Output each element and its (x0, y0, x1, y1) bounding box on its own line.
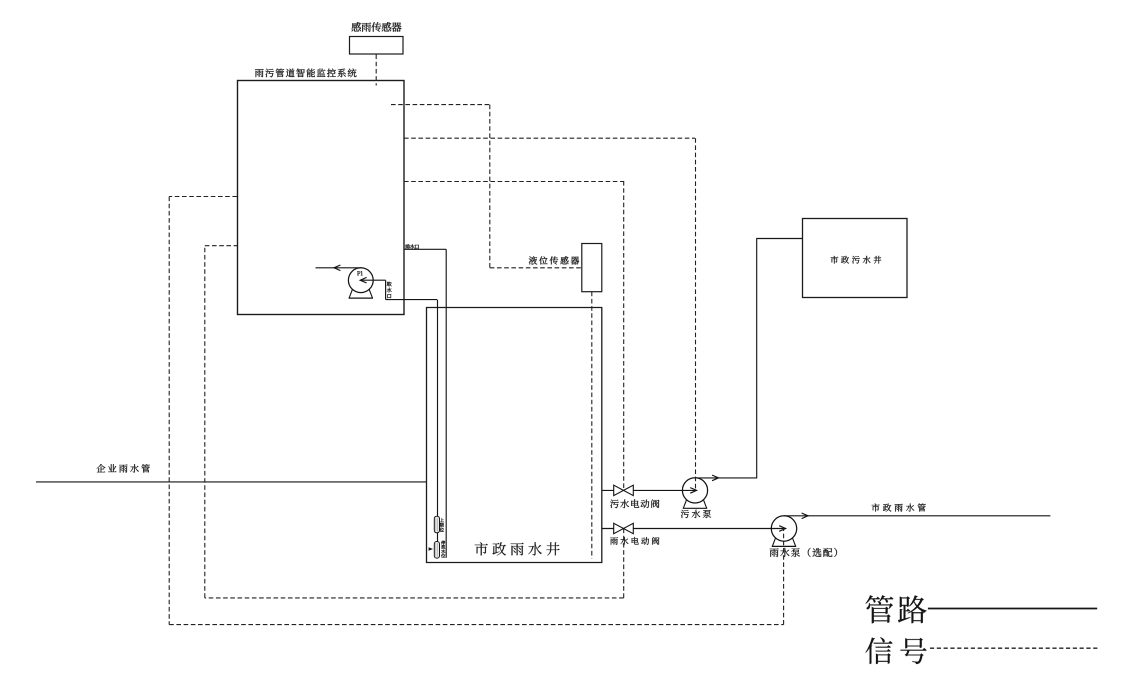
label 市政雨水井 (475, 542, 560, 555)
label P1 (357, 271, 363, 275)
label 排水口 (drain port) (405, 244, 419, 249)
pipe: intake riser inside well (437, 300, 439, 558)
label 市政污水井 (831, 256, 882, 264)
arrow: sewage discharge flow (712, 475, 718, 481)
level switch capsule upper (434, 516, 439, 533)
pipe: well to rain pump suction (602, 528, 786, 530)
label 液位传感器 (529, 256, 579, 264)
box: monitoring system cabinet (238, 81, 405, 315)
label 雨污管道智能监控系统 (255, 69, 357, 78)
signal wire: cabinet to sewage pump (dashed) (404, 137, 695, 139)
label 企业雨水管 (97, 464, 150, 473)
label 市政雨水管 (872, 504, 926, 512)
label 污水泵 (681, 510, 711, 518)
label lower level switch (441, 541, 445, 558)
level switch capsule lower (434, 542, 439, 559)
arrow: suction flow into P1 (360, 277, 366, 283)
pipe: P1 discharge to cabinet interior (316, 267, 362, 269)
signal wire: rain sensor to cabinet (dashed) (375, 55, 377, 86)
arrow: discharge flow left (334, 265, 340, 271)
signal wire: cabinet to level sensor (dashed) (391, 104, 490, 106)
legend label 管路 (866, 595, 927, 623)
label 感雨传感器 (352, 22, 402, 32)
arrow marker at lower switch (429, 547, 433, 551)
box: level sensor 液位传感器 (582, 244, 602, 292)
pipe: cabinet drain outlet to well (404, 248, 446, 250)
box: municipal rainwater well 市政雨水井 (427, 308, 602, 563)
arrow: flow into sewage pump (690, 488, 696, 494)
label 污水电动阀 (610, 499, 659, 508)
wire: enterprise rainwater pipe into well (36, 481, 426, 483)
pump P1 (cabinet internal pump) (349, 289, 353, 298)
valve: rainwater electric valve 雨水电动阀 (drawn over signal wire) (614, 523, 634, 533)
pipe: P1 suction from intake riser (360, 279, 385, 281)
label 雨水泵（选配） (770, 548, 837, 557)
arrow: rain discharge flow (802, 513, 808, 519)
label upper level switch (440, 518, 444, 532)
label 取水口 (intake port) (387, 282, 392, 299)
pipe: sewage pump discharge to sewage well (695, 477, 757, 479)
box: municipal sewage well 市政污水井 (803, 219, 908, 298)
valve: sewage electric valve 污水电动阀 (drawn over signal wire) (614, 485, 634, 495)
signal wire: level sensor probe into well (dashed) (591, 292, 593, 559)
arrow: flow into rain pump (779, 526, 785, 532)
pipe: well to sewage pump suction (602, 489, 697, 491)
label 雨水电动阀 (610, 537, 659, 545)
signal wire: cabinet to rain pump (dashed) (169, 196, 237, 198)
legend: solid pipeline sample (928, 608, 1097, 610)
pump: rainwater pump 雨水泵 (772, 537, 776, 546)
signal wire: cabinet to electric valves (dashed) (404, 181, 624, 183)
legend: dashed signal sample (930, 647, 1098, 649)
legend label 信号 (866, 637, 927, 664)
pump: sewage pump 污水泵 (683, 499, 687, 508)
pipe: rain pump discharge to municipal rain main (784, 515, 1050, 517)
box: rain sensor 感雨传感器 (350, 37, 404, 55)
